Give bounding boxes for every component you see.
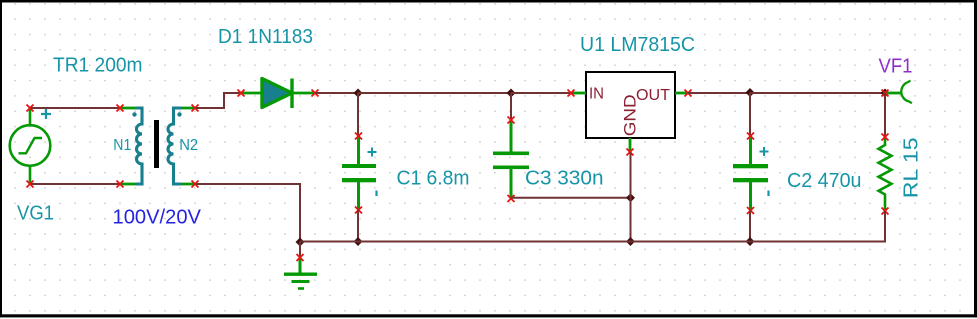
svg-text:VF1: VF1 [879,56,913,78]
transformer TR1 [117,105,199,188]
wire VG1 bottom to TR1 [31,183,120,185]
svg-text:IN: IN [589,86,604,103]
wire C3 to GND net [511,197,631,199]
svg-text:C3 330n: C3 330n [525,167,604,189]
wire U1 OUT to node C [688,92,750,94]
wire D1 to node A [316,92,358,94]
junction C3/GND net [626,193,635,202]
wire VF1 corner down to RL [884,93,886,137]
junction node A (top of C1) [354,89,363,98]
capacitor C3 [493,117,529,203]
probe VF1 [882,81,912,104]
wire node C to VF1 corner [750,92,885,94]
junction C2 bottom [746,237,755,246]
wire RL to bottom rail corner [884,211,885,242]
wire TR1 secondary bottom to ground corner [196,184,300,242]
wire node A down to C1 [357,93,359,136]
voltage source VG1 [10,105,51,188]
regulator U1 [568,72,692,156]
ground [284,254,317,290]
wire TR1 secondary to D1 [196,93,240,108]
wire U1 GND to bottom rail [630,152,632,242]
wire ground stub [299,242,301,258]
plus polarity mark VG1 [41,109,51,119]
wire VG1 top to TR1 [31,107,120,109]
capacitor C1 [342,133,377,214]
resistor RL [879,134,892,215]
diode D1 [238,79,319,109]
svg-text:VG1: VG1 [17,202,54,224]
svg-text:C2 470u: C2 470u [787,170,862,192]
wire C1 to bottom rail [357,210,359,242]
svg-text:TR1 200m: TR1 200m [53,54,143,76]
junction C1 bottom [354,237,363,246]
bottom rail [300,241,885,243]
junction node B (top of C3) [507,89,516,98]
wire node B down to C3 [510,93,512,120]
svg-text:OUT: OUT [636,87,670,104]
capacitor C2 [733,133,769,215]
junction ground node [296,238,305,247]
junction node D (VF1 corner) [881,89,890,98]
wire node A to node B [358,92,511,94]
junction GND net at bottom rail [626,237,635,246]
wire node C down to C2 [749,93,751,136]
svg-text:GND: GND [621,94,640,136]
svg-text:D1 1N1183: D1 1N1183 [218,26,313,48]
wire C2 to bottom rail [749,211,751,242]
svg-text:N2: N2 [179,137,198,154]
wire node B to U1 IN [511,92,571,94]
junction node C (top of C2) [746,88,755,97]
svg-text:RL 15: RL 15 [901,137,923,198]
svg-text:N1: N1 [113,137,131,154]
svg-text:U1 LM7815C: U1 LM7815C [580,34,695,56]
svg-text:100V/20V: 100V/20V [113,206,202,228]
svg-text:C1 6.8m: C1 6.8m [397,167,470,189]
